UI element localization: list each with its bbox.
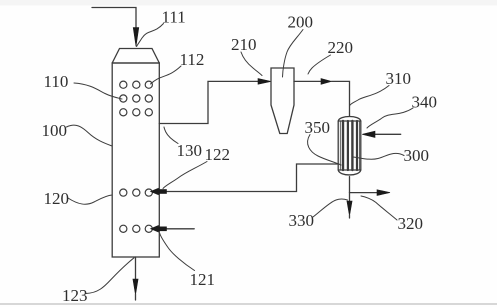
wire feed 121 [167, 228, 195, 230]
svg-text:330: 330 [289, 211, 315, 230]
bottom gray rule [0, 303, 497, 305]
wire branch 320 [350, 192, 378, 194]
svg-text:120: 120 [44, 189, 70, 208]
nozzle circles row 121 [120, 225, 153, 232]
wire bottoms outlet 123 [135, 257, 137, 281]
leader 320 [361, 196, 397, 220]
leader 110 [74, 83, 122, 99]
leader 220 [308, 55, 331, 74]
svg-text:300: 300 [404, 146, 430, 165]
arrow 340 into exchanger [362, 131, 375, 137]
arrow on cyclone outlet [321, 79, 332, 85]
leader lines [67, 24, 414, 294]
leader 210 [241, 52, 262, 76]
wire feed line 111 [92, 8, 136, 30]
leader 120 [68, 195, 112, 204]
svg-text:350: 350 [305, 118, 331, 137]
svg-text:110: 110 [44, 72, 69, 91]
column vessel 100 : trapezoid head [112, 49, 159, 64]
wire exchanger to column (122 return) [167, 164, 339, 192]
svg-text:121: 121 [190, 270, 216, 289]
leader 130 [164, 127, 178, 144]
leader 310 [350, 86, 389, 106]
wire 130 : column overhead to cyclone [159, 81, 258, 123]
arrow into cyclone inlet [258, 79, 271, 85]
column body rectangle [112, 63, 159, 257]
top gray band [0, 0, 497, 6]
wire to exchanger top [332, 81, 350, 116]
wire cyclone outlet 220 [294, 80, 321, 82]
leader 121 [160, 234, 195, 271]
svg-text:320: 320 [398, 214, 424, 233]
arrow 123 down [133, 279, 138, 295]
leader 123 [86, 258, 134, 294]
leader 300 [353, 153, 404, 159]
leader 340 [367, 108, 413, 128]
svg-text:111: 111 [162, 8, 186, 27]
exchanger tubes 350 [340, 121, 359, 170]
cyclone separator 200 [271, 68, 294, 134]
nozzle circles row 122 [120, 189, 153, 196]
wire exchanger bottom outlet [349, 177, 351, 202]
svg-text:100: 100 [42, 121, 68, 140]
svg-text:200: 200 [288, 13, 314, 32]
leader 112 [151, 66, 182, 84]
nozzle circles 110 (3x3 grid) [120, 81, 153, 116]
svg-text:112: 112 [180, 50, 205, 69]
leader 350 [308, 135, 341, 166]
leader 100 [67, 125, 113, 146]
arrow 122 into column [151, 188, 159, 195]
wire inlet 340 [375, 133, 401, 135]
column head shoulder line [112, 62, 159, 64]
arrow 320 right [377, 190, 390, 196]
heat exchanger 300 shell [338, 117, 361, 175]
arrow 121 into column [151, 226, 159, 233]
leader 122 [163, 162, 207, 189]
svg-text:210: 210 [231, 35, 257, 54]
svg-text:310: 310 [386, 69, 412, 88]
svg-text:122: 122 [205, 145, 231, 164]
arrow 330 down [347, 201, 352, 216]
leader 200 [283, 30, 304, 78]
svg-text:123: 123 [62, 286, 88, 305]
svg-text:220: 220 [328, 38, 354, 57]
leader 111 [137, 24, 164, 47]
leader 330 [313, 199, 348, 217]
arrow into column top (111) [133, 28, 139, 47]
svg-text:340: 340 [412, 93, 438, 112]
svg-text:130: 130 [177, 141, 203, 160]
